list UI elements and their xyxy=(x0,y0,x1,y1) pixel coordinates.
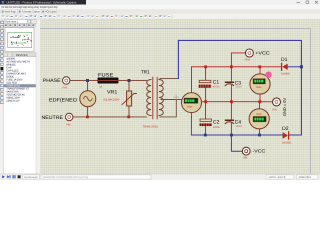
voltmeter VM3 xyxy=(249,109,269,129)
junction bottom rail VM3 xyxy=(258,134,261,137)
wire C3 top xyxy=(230,67,232,82)
junction bottom rail C4 xyxy=(230,134,233,137)
svg-text:VR1: VR1 xyxy=(107,89,118,95)
wire GND terminal xyxy=(260,101,272,103)
capacitor C2 xyxy=(200,119,213,126)
svg-text:UNTITLED - Proteus 8 Professio: UNTITLED - Proteus 8 Professional - Sche… xyxy=(7,1,77,5)
wire D2 to blue xyxy=(289,134,301,136)
varistor VR1 xyxy=(122,91,136,106)
junction VR1/neutral xyxy=(127,116,130,119)
wire source top xyxy=(87,80,89,90)
terminal -VCC xyxy=(242,147,250,155)
junction mid rail C1 xyxy=(204,100,207,103)
sheet border top xyxy=(40,28,311,30)
svg-text:4700u: 4700u xyxy=(213,126,220,129)
svg-text:100nF: 100nF xyxy=(236,86,243,89)
fuse body xyxy=(98,78,119,84)
svg-text:PIN: PIN xyxy=(66,123,70,126)
junction phase/source xyxy=(86,79,89,82)
junction mid rail C3 xyxy=(230,100,233,103)
wire VM2 bottom xyxy=(259,94,261,102)
svg-text:ANIMATING: 00:00:00.000000 (CP: ANIMATING: 00:00:00.000000 (CPU load 1%) xyxy=(43,176,88,179)
wire fuse to transformer xyxy=(119,79,147,81)
wire VM2 top xyxy=(259,67,261,74)
wire VM3 bottom xyxy=(259,129,261,135)
svg-text:C2: C2 xyxy=(213,119,220,125)
wire C3 bottom xyxy=(230,85,232,102)
svg-text:TRAN-2P3S: TRAN-2P3S xyxy=(143,125,159,128)
wire +VCC branch xyxy=(231,53,244,67)
title bar xyxy=(0,0,320,5)
left mode toolbar strip xyxy=(0,21,3,104)
svg-text:D2: D2 xyxy=(282,126,289,132)
junction source/neutral xyxy=(86,116,89,119)
wire neutral xyxy=(73,116,146,118)
junction bottom rail C2 xyxy=(204,134,207,137)
diode D2 xyxy=(283,132,289,139)
wire source bottom xyxy=(87,107,89,117)
junction top rail C1 xyxy=(204,65,207,68)
small buttons row above overview xyxy=(4,23,36,27)
status bar xyxy=(0,174,320,180)
svg-text:NEUTRE: NEUTRE xyxy=(42,115,64,121)
menu bar xyxy=(0,5,320,10)
main toolbar xyxy=(0,14,320,19)
window background xyxy=(0,0,320,180)
svg-text:1N5408: 1N5408 xyxy=(282,142,291,145)
voltage probe xyxy=(265,72,271,78)
devices list xyxy=(4,57,37,174)
junction fuse/VR1 xyxy=(128,79,131,82)
wire blue top rail xyxy=(178,40,301,135)
svg-text:1A: 1A xyxy=(99,85,102,88)
wire blue bottom rail xyxy=(191,134,282,136)
terminal GND xyxy=(273,98,281,106)
voltmeter VM1 xyxy=(182,93,202,113)
tab bar xyxy=(0,9,320,14)
transformer TR1 secondary winding xyxy=(159,80,163,116)
svg-text:DEVICES: DEVICES xyxy=(16,54,28,57)
wire VR1 top xyxy=(128,80,130,91)
svg-text:ZENER 12V: ZENER 12V xyxy=(6,100,20,103)
wire secondary centre tap xyxy=(161,99,182,101)
wire mid rail xyxy=(202,101,260,103)
svg-text:PIN: PIN xyxy=(63,86,67,89)
wire voltmeter VM1 top xyxy=(191,67,193,93)
capacitor C3 xyxy=(225,82,234,86)
transformer TR1 primary winding xyxy=(147,80,151,116)
svg-text:Volts: Volts xyxy=(256,113,262,116)
wire D1 to blue xyxy=(288,66,302,68)
svg-text:PHASE: PHASE xyxy=(43,78,61,84)
svg-text:Home Page: Home Page xyxy=(5,10,16,14)
svg-text:C1: C1 xyxy=(213,80,220,86)
svg-text:+VCC: +VCC xyxy=(255,51,270,56)
diode D1 xyxy=(282,63,288,70)
svg-text:EDF(ENEO: EDF(ENEO xyxy=(49,97,77,103)
junction top rail C3 xyxy=(230,65,233,68)
svg-text:4700u: 4700u xyxy=(213,86,220,89)
wire C1 top xyxy=(205,67,207,81)
svg-text:PIN: PIN xyxy=(272,109,276,112)
wire C2 bottom xyxy=(205,126,207,135)
wire -VCC branch xyxy=(231,135,242,151)
svg-text:Root sheet 1: Root sheet 1 xyxy=(5,20,19,23)
terminal NEUTRE xyxy=(66,113,73,120)
svg-text:File Edit View Tool Design Gra: File Edit View Tool Design Graph Debug L… xyxy=(2,5,58,9)
object selector header xyxy=(4,53,8,57)
wire secondary top xyxy=(160,77,178,79)
overview minimap xyxy=(5,28,34,52)
svg-text:PCB Layout: PCB Layout xyxy=(45,10,56,14)
svg-text:-VCC: -VCC xyxy=(252,149,266,154)
sheet border right xyxy=(310,29,312,175)
wire C4 bottom xyxy=(230,123,232,135)
junction top rail VM2 xyxy=(258,65,261,68)
capacitor C1 xyxy=(199,80,212,87)
sheet selector row xyxy=(4,20,31,24)
wire C4 top xyxy=(230,102,232,120)
transformer TR1 core xyxy=(152,78,154,119)
svg-text:S10K250: S10K250 xyxy=(103,99,120,102)
wire VR1 bottom xyxy=(128,106,130,117)
svg-text:Schematic Capture: Schematic Capture xyxy=(22,10,40,14)
terminal +VCC xyxy=(245,49,253,57)
svg-text:TR1: TR1 xyxy=(141,70,150,76)
wire VM3 top xyxy=(259,102,261,109)
canvas xyxy=(40,20,320,175)
capacitor C4 xyxy=(225,120,234,124)
wire secondary bottom loop xyxy=(160,100,176,117)
wire top rail xyxy=(192,66,282,68)
wire C2 top xyxy=(205,102,207,119)
svg-text:No Messages: No Messages xyxy=(24,176,38,179)
terminal PHASE xyxy=(62,77,69,84)
svg-text:ANIMATING: ANIMATING xyxy=(299,176,311,179)
wire phase terminal to fuse xyxy=(70,79,97,81)
AC source EDF xyxy=(80,91,96,107)
svg-text:100nF: 100nF xyxy=(236,125,243,128)
junction mid rail VM2 xyxy=(258,100,261,103)
wire C1 bottom xyxy=(205,88,207,102)
svg-text:Volts: Volts xyxy=(256,86,262,89)
voltmeter VM2 xyxy=(250,74,270,94)
wire voltmeter VM1 bottom xyxy=(191,113,193,118)
origin marker cross xyxy=(174,95,179,100)
svg-text:+2600.0 +600.0 th: +2600.0 +600.0 th xyxy=(268,176,286,179)
svg-text:GND = 0V: GND = 0V xyxy=(282,98,287,117)
svg-text:1N5408: 1N5408 xyxy=(281,72,290,75)
svg-text:D1: D1 xyxy=(281,57,288,63)
junction blue D1 xyxy=(300,65,303,68)
svg-text:PIN: PIN xyxy=(243,156,247,159)
svg-text:Volts: Volts xyxy=(187,105,193,108)
svg-text:POS: POS xyxy=(245,59,251,62)
